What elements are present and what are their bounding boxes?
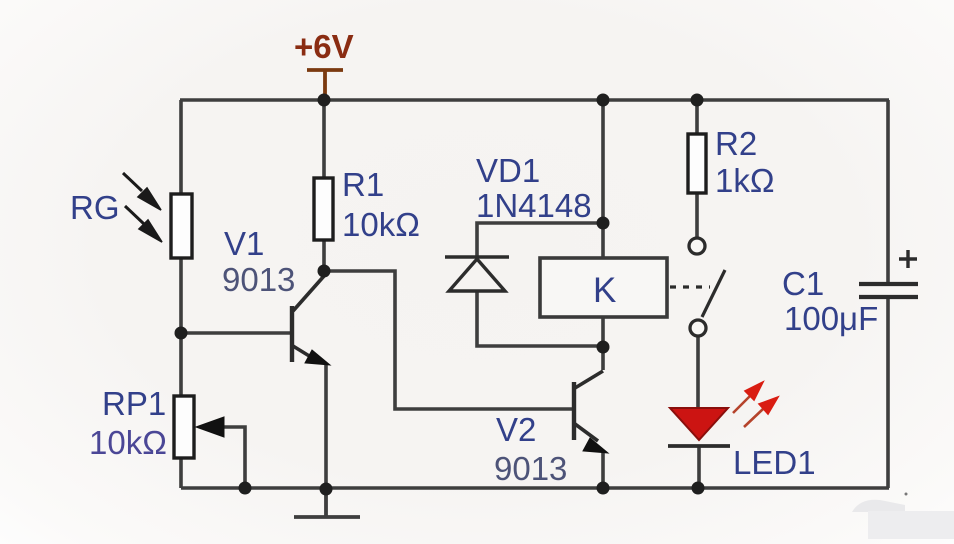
diode VD1 xyxy=(445,257,509,291)
value 10k ohm R1 xyxy=(342,206,420,243)
value 10k ohm RP1 xyxy=(89,424,167,461)
capacitor C1 xyxy=(859,250,918,297)
svg-text:R2: R2 xyxy=(715,125,757,162)
node diode top junction xyxy=(597,217,610,230)
node left base junction xyxy=(175,327,188,340)
wire right rail lower xyxy=(886,298,890,488)
label RP1 xyxy=(102,385,166,422)
node top R1 junction xyxy=(318,94,331,107)
label VD1 xyxy=(476,152,540,189)
wire V2 emitter down xyxy=(601,452,605,488)
svg-text:9013: 9013 xyxy=(222,261,295,298)
label C1 xyxy=(782,265,824,302)
light arrows into RG xyxy=(123,173,162,242)
wire LED branch xyxy=(698,335,699,488)
wire bottom rail xyxy=(181,486,889,490)
value 9013 V1 xyxy=(222,261,295,298)
value 1N4148 xyxy=(476,187,592,224)
value 100uF xyxy=(784,300,878,337)
relay switch contact top xyxy=(689,238,705,254)
node V2 emitter junction xyxy=(597,482,610,495)
label V1 xyxy=(224,225,264,262)
relay switch contact bottom xyxy=(690,320,706,336)
ground xyxy=(294,488,360,517)
relay actuation dashed link xyxy=(670,285,710,288)
wire top rail xyxy=(180,98,889,102)
LED1 xyxy=(668,408,730,446)
power +6V symbol xyxy=(307,70,343,100)
svg-text:1N4148: 1N4148 xyxy=(476,187,592,224)
svg-text:1kΩ: 1kΩ xyxy=(715,162,775,199)
label V2 xyxy=(496,411,536,448)
svg-text:RG: RG xyxy=(70,189,120,226)
node diode bottom junction xyxy=(597,341,610,354)
wire V1 collector to V2 base link xyxy=(324,271,572,409)
watermark remnant shapes xyxy=(852,493,954,540)
wire V1 emitter down xyxy=(324,364,328,489)
svg-text:C1: C1 xyxy=(782,265,824,302)
svg-text:LED1: LED1 xyxy=(733,444,816,481)
label K xyxy=(593,271,616,310)
svg-text:+6V: +6V xyxy=(294,28,354,65)
svg-text:100μF: 100μF xyxy=(784,300,878,337)
svg-text:10kΩ: 10kΩ xyxy=(342,206,420,243)
svg-text:V1: V1 xyxy=(224,225,264,262)
resistor RG (photoresistor) xyxy=(171,194,192,258)
wire left rail xyxy=(179,100,183,488)
svg-text:VD1: VD1 xyxy=(476,152,540,189)
label RG xyxy=(70,189,120,226)
label R2 xyxy=(715,125,757,162)
svg-text:RP1: RP1 xyxy=(102,385,166,422)
wire RP1 wiper xyxy=(218,427,245,488)
value 1k ohm R2 xyxy=(715,162,775,199)
transistor V2 xyxy=(574,371,608,453)
potentiometer RP1 xyxy=(174,396,224,458)
node top K junction xyxy=(597,94,610,107)
LED1 emission arrows xyxy=(733,382,778,427)
node LED bottom junction xyxy=(692,482,705,495)
node top R2 junction xyxy=(691,94,704,107)
svg-text:R1: R1 xyxy=(342,166,384,203)
relay switch blade xyxy=(702,270,725,317)
svg-text:10kΩ: 10kΩ xyxy=(89,424,167,461)
svg-text:K: K xyxy=(593,271,616,310)
label LED1 xyxy=(733,444,816,481)
power label +6V xyxy=(294,28,354,65)
node R1 bottom junction xyxy=(318,265,331,278)
node RP1 wiper junction xyxy=(239,482,252,495)
label R1 xyxy=(342,166,384,203)
wire R1 branch xyxy=(322,100,326,271)
wire V1 base xyxy=(181,331,290,335)
resistor R2 xyxy=(688,134,706,193)
node ground junction xyxy=(320,483,333,496)
svg-text:9013: 9013 xyxy=(494,450,567,487)
wire right rail upper xyxy=(886,100,890,283)
wire R2 branch xyxy=(695,100,699,239)
svg-text:V2: V2 xyxy=(496,411,536,448)
value 9013 V2 xyxy=(494,450,567,487)
wire diode branch xyxy=(477,223,603,346)
resistor R1 xyxy=(314,178,333,240)
transistor V1 xyxy=(292,276,330,365)
wire K branch vertical xyxy=(601,100,605,370)
relay K box xyxy=(540,258,667,317)
